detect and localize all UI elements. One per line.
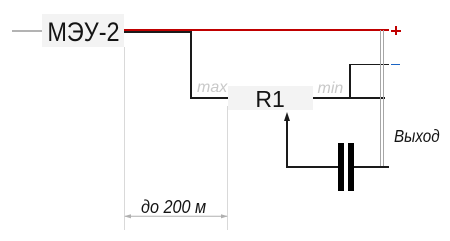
wire: + line (red) from МЭУ-2 to + terminal: [124, 29, 389, 31]
wire: horizontal to R1 max terminal: [190, 97, 228, 99]
cable pair line 1: [380, 30, 381, 167]
capacitor C1 left plate: [338, 143, 344, 192]
wire: input lead into MEU-2: [12, 30, 42, 32]
wire: vertical drop to max terminal: [190, 31, 192, 99]
wire: black line from МЭУ-2 to max branch: [124, 31, 192, 33]
wire: vertical riser to minus line: [349, 64, 351, 99]
dimension extension line left: [124, 47, 125, 230]
label R1: [228, 87, 313, 111]
wiper arrow shaft: [286, 119, 288, 168]
label МЭУ-2: [47, 16, 118, 49]
terminal - (blue minus): [391, 64, 400, 66]
label до 200 м: [141, 197, 206, 218]
wire: minus line to - terminal: [349, 64, 389, 66]
potentiometer R1: [228, 86, 313, 110]
device box МЭУ-2: [42, 14, 124, 47]
capacitor C1 right plate: [348, 143, 354, 192]
dimension extension line right: [227, 106, 228, 230]
cable pair line 2: [383, 30, 384, 167]
terminal + (red plus): [391, 30, 401, 32]
wire: capacitor to output: [354, 166, 389, 168]
label min: [318, 80, 344, 98]
wiper arrow head: [284, 112, 290, 121]
wire: wiper to capacitor: [286, 166, 338, 168]
label max: [197, 79, 227, 97]
wire: R1 min terminal to cable: [313, 97, 386, 99]
label Выход: [394, 126, 440, 147]
dimension line до 200 м with arrows: [124, 211, 228, 222]
